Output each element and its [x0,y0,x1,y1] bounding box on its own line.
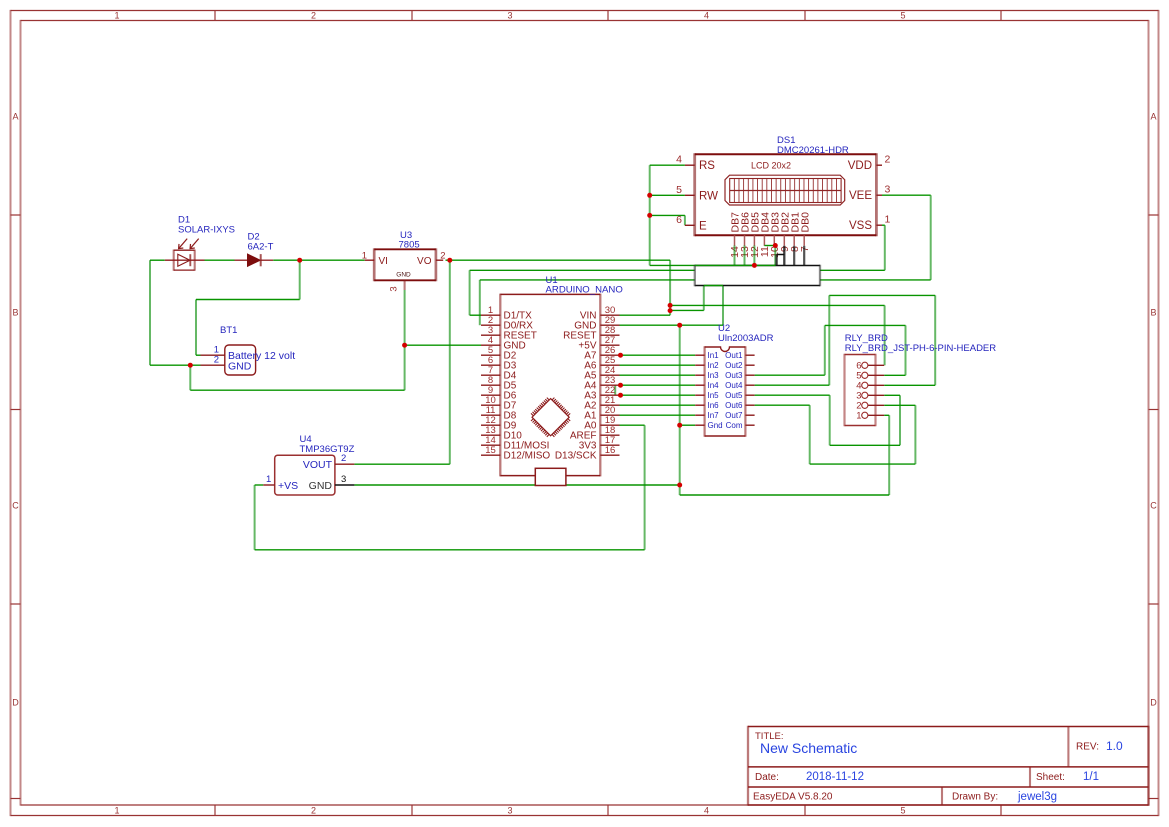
U1 pin 25 A6 [584,355,619,372]
svg-text:VOUT: VOUT [303,459,333,471]
wire junction D2 cathode down to BT1 pin1 [196,260,300,355]
mcu U1 box [500,294,600,477]
wire LCD RS-RW-E net vertical [650,165,685,265]
value 7805 [399,240,420,251]
photodiode D1 [174,250,195,271]
svg-text:D13/SCK: D13/SCK [555,451,597,462]
black wire LCD pin7 [803,246,805,266]
lcd DS1 display glyph [725,175,845,205]
DS1 pin 7 DB0 [799,212,812,252]
DS1 pin 1 VSS [849,214,891,233]
svg-text:Com: Com [726,421,743,430]
label RLY_BRD [845,333,888,344]
svg-text:16: 16 [605,445,616,456]
wire LCD pin12 drop [753,246,755,266]
DS1 pin 2 VDD [848,154,891,173]
U1 pin 1 D1/TX [481,305,532,322]
DS1 pin 4 RS [676,154,715,173]
svg-text:In1: In1 [708,351,720,360]
junction dot U3 gnd [402,343,407,348]
U2 pin Out5 [725,391,754,400]
U2 pin Out4 [725,381,754,390]
driver U2 box [705,346,746,436]
svg-text:D: D [1150,698,1157,708]
value Battery 12 volt [228,350,295,362]
RLY_BRD pin 6 [856,361,884,372]
wire Out3 to RLY pin5 [755,325,906,375]
svg-text:TMP36GT9Z: TMP36GT9Z [300,444,355,455]
photodiode D1 light arrows [179,239,199,249]
svg-text:1.0: 1.0 [1106,739,1123,753]
svg-text:New Schematic: New Schematic [760,740,857,756]
svg-text:RLY_BRD_JST-PH-6-PIN-HEADER: RLY_BRD_JST-PH-6-PIN-HEADER [845,343,996,354]
U1 pin 21 A2 [584,395,619,412]
U4 pin 2 VOUT [303,453,355,471]
svg-text:In6: In6 [708,401,720,410]
svg-text:2: 2 [311,806,316,816]
U2 pin In4 [695,381,719,390]
svg-text:EasyEDA V5.8.20: EasyEDA V5.8.20 [753,792,833,803]
U2 pin Com [726,421,755,430]
value TMP36GT9Z [300,444,355,455]
DS1 pin 5 RW [676,184,718,203]
svg-text:Out1: Out1 [725,351,743,360]
svg-text:D12/MISO: D12/MISO [504,451,551,462]
U1 chip diamond glyph [531,398,570,437]
svg-text:1: 1 [114,11,119,21]
svg-text:Uln2003ADR: Uln2003ADR [718,333,774,344]
value Uln2003ADR [718,333,774,344]
svg-text:Gnd: Gnd [708,421,723,430]
wire A7 to In1 [620,354,696,356]
svg-text:BT1: BT1 [220,325,237,336]
svg-text:GND: GND [309,480,333,492]
value DMC20261-HDR [777,145,849,156]
wire A4 to In4 [620,384,696,386]
svg-text:1: 1 [114,806,119,816]
junction dot D2-BT1 [297,258,302,263]
junction dot lcd12 [752,263,757,268]
RLY_BRD pin 2 [856,401,884,412]
U2 pin In5 [695,391,719,400]
svg-text:Out2: Out2 [725,361,743,370]
U1 pin 2 D0/RX [481,315,533,332]
U3 pin 2 VO [417,250,446,267]
U1 pin 7 D4 [481,365,517,382]
wire RLY pin1 stub to ground [884,414,889,416]
wire A6 to In2 [620,364,696,366]
frame row labels right [1150,112,1157,708]
frame row labels left [12,112,19,708]
lcd DS1 title text [751,161,791,171]
svg-text:E: E [699,220,707,232]
value 6A2-T [248,242,274,253]
U1 pin 13 D10 [481,425,522,442]
svg-text:In4: In4 [708,381,720,390]
title block Drawn By [952,791,1057,803]
svg-text:4: 4 [704,11,709,21]
wire A5 to In3 [620,374,696,376]
svg-text:3: 3 [389,286,400,291]
value ARDUINO_NANO [546,285,623,296]
U2 pin In7 [695,411,719,420]
BT1 pin 1 [201,344,225,355]
DS1 pin 9 DB2 [779,212,792,252]
svg-text:3: 3 [507,11,512,21]
svg-text:VDD: VDD [848,160,872,172]
wire overlay on header bottom edge [704,285,723,287]
svg-text:Sheet:: Sheet: [1036,772,1065,783]
DS1 pin 8 DB1 [789,212,802,252]
svg-text:In3: In3 [708,371,720,380]
svg-text:15: 15 [485,445,496,456]
label D1 [178,215,190,226]
wire Out5 to RLY pin3 [755,395,900,445]
U1 pin 18 AREF [570,425,620,442]
svg-text:A: A [1150,112,1156,122]
junction dot U4 gnd [677,483,682,488]
svg-text:SOLAR-IXYS: SOLAR-IXYS [178,225,235,236]
DS1 pin 12 DB5 [749,212,762,258]
U2 pin Out2 [725,361,754,370]
wire VO output to right [446,259,671,261]
U1 pin 15 D12/MISO [481,445,550,462]
U1 pin 26 A7 [584,345,619,362]
U1 pin 12 D9 [481,415,517,432]
DS1 pin 3 VEE [849,184,891,203]
RLY_BRD pin 4 [856,381,884,392]
RLY_BRD pin 3 [856,391,884,402]
svg-text:2: 2 [311,11,316,21]
svg-text:VI: VI [379,256,388,267]
U4 pin 3 GND [309,474,355,492]
wire Out6 to RLY pin2 [755,405,916,464]
junction dot supply a [668,303,673,308]
junction dot supply b [668,308,673,313]
wire A0 to U4 +VS [255,425,645,550]
U1 pin 14 D11/MOSI [481,435,549,452]
title block Date [755,771,864,783]
wire A1 to In7 [620,414,696,416]
svg-text:RS: RS [699,160,715,172]
wire main supply horizontal D1-D2-U3 [150,259,365,261]
junction dot A7 [618,353,623,358]
U1 pin 3 RESET [481,325,537,342]
DS1 pin 11 DB4 [759,212,772,257]
svg-text:4: 4 [704,806,709,816]
regulator U3 box [374,248,436,281]
U2 pin Out7 [725,411,754,420]
svg-text:1: 1 [362,250,367,261]
junction dot lcd10 [773,243,778,248]
svg-text:2: 2 [214,354,219,365]
svg-text:Out5: Out5 [725,391,743,400]
svg-text:Out6: Out6 [725,401,743,410]
svg-text:VSS: VSS [849,220,872,232]
svg-text:5: 5 [900,806,905,816]
svg-text:6A2-T: 6A2-T [248,242,274,253]
label U3 [400,230,412,241]
svg-text:3: 3 [885,184,891,196]
title block EasyEDA version [753,792,833,803]
U1 pin 6 D3 [481,355,517,372]
svg-text:B: B [12,308,18,318]
U1 pin 8 D5 [481,375,517,392]
wire VIN row to header [620,286,704,316]
U1 pin 27 +5V [578,335,619,352]
svg-text:In5: In5 [708,391,720,400]
DS1 pin 10 DB3 [769,212,782,258]
junction dot U2 gnd [677,423,682,428]
svg-text:2: 2 [440,250,445,261]
wire U4 GND to ground net [354,484,679,486]
wire U3 GND pin down [404,290,406,390]
BT1 pin 2 [201,354,225,365]
svg-text:C: C [12,501,19,511]
DS1 pin 6 E [676,214,707,233]
junction dot A4 [618,383,623,388]
svg-text:1: 1 [885,214,891,226]
svg-text:DMC20261-HDR: DMC20261-HDR [777,145,849,156]
wire VO corner down to VIN junction [669,260,671,315]
label DS1 [777,135,795,146]
U2 pin Out6 [725,401,754,410]
U2 pin In1 [695,351,719,360]
wire A3 to In5 [620,394,696,396]
svg-text:Out7: Out7 [725,411,743,420]
U3 pin 3 GND [389,272,412,292]
svg-text:B: B [1150,308,1156,318]
U2 pin Out3 [725,371,754,380]
diode D1 leads [165,259,205,261]
wire VOUT U4 up to VO junction [354,260,449,464]
title block REV [1076,739,1123,753]
U3 pin 1 VI [362,250,388,267]
frame column labels bottom [114,806,905,816]
RLY_BRD pin 1 [856,411,884,422]
wire overlay on header top edge [695,264,776,266]
wire A4-A3 tie [614,385,616,395]
title block Sheet [1036,771,1099,783]
U1 pin 19 A0 [584,415,619,432]
RLY_BRD pin 5 [856,371,884,382]
svg-text:LCD 20x2: LCD 20x2 [751,161,791,171]
wire LCD pin14 drop [734,246,736,266]
svg-text:4: 4 [676,154,682,166]
DS1 pin 13 DB6 [739,212,752,258]
svg-text:A: A [12,112,18,122]
label U4 [300,434,312,445]
svg-text:Drawn By:: Drawn By: [952,792,998,803]
svg-text:5: 5 [676,184,682,196]
svg-text:2018-11-12: 2018-11-12 [806,771,864,783]
DS1 pin 14 DB7 [729,212,742,258]
svg-text:2: 2 [885,154,891,166]
value RLY_BRD_JST-PH-6-PIN-HEADER [845,343,996,354]
battery BT1 box [225,345,256,375]
wire left vertical from D1 anode down to BT1 pin2 row [150,260,201,365]
wire U3 GND junction to Arduino GND pin4 [405,344,481,346]
U2 pin Gnd [695,421,722,430]
junction dot E [647,213,652,218]
svg-text:D: D [12,698,19,708]
U1 pin 20 A1 [584,405,619,422]
svg-text:VO: VO [417,256,432,267]
diode D2 [235,254,274,266]
title block [748,726,1149,806]
U1 pin 29 GND [574,315,619,332]
junction dot BT1 gnd [188,363,193,368]
wire ground net vertical U2 [680,325,890,495]
junction dot RW [647,193,652,198]
junction dot gnd29 [677,323,682,328]
svg-text:GND: GND [396,272,411,279]
U1 pin 17 3V3 [579,435,620,452]
wire GND29 row [620,286,724,326]
U1 pin 5 D2 [481,345,517,362]
junction dot A3 [618,393,623,398]
svg-text:7805: 7805 [399,240,420,251]
junction dot VO-VOUT [447,258,452,263]
wire LCD pin11 jog [764,245,775,247]
U1 pin 24 A5 [584,365,619,382]
BT1 GND text [228,360,252,372]
U1 pin 22 A3 [584,385,619,402]
svg-text:5: 5 [900,11,905,21]
svg-text:Date:: Date: [755,772,779,783]
wire BT1 pin2 junction down to GND rail [190,365,404,390]
label U1 [546,275,558,286]
U4 pin 1 +VS [263,474,298,492]
svg-text:1: 1 [856,411,861,422]
U1 pin 11 D8 [481,405,517,422]
svg-text:+VS: +VS [278,480,298,492]
U2 pin Out1 [725,351,754,360]
U1 pin 4 GND [481,335,526,352]
title block New Schematic [760,740,857,756]
value SOLAR-IXYS [178,225,235,236]
wire A2 to In6 [620,404,696,406]
U1 pin 23 A4 [584,375,619,392]
svg-text:C: C [1150,501,1157,511]
U1 usb connector rect [535,468,566,485]
wire supply net to LCD data pins [650,264,776,266]
header RLY_BRD box [845,354,876,426]
svg-text:In7: In7 [708,411,720,420]
U2 pin In2 [695,361,719,370]
svg-text:3: 3 [507,806,512,816]
svg-text:Out3: Out3 [725,371,743,380]
svg-text:3: 3 [341,474,346,485]
svg-text:VEE: VEE [849,190,872,202]
U1 pin 16 D13/SCK [555,445,620,462]
U2 pin In3 [695,371,719,380]
connector header white box [695,265,820,287]
svg-text:1: 1 [266,474,271,485]
svg-text:1/1: 1/1 [1083,771,1099,783]
U1 pin 10 D7 [481,395,517,412]
svg-text:RW: RW [699,190,718,202]
wire Out4 to RLY pin4 [755,295,936,385]
black wire LCD pin9 [777,246,785,266]
lcd DS1 box [695,153,877,236]
svg-text:jewel3g: jewel3g [1017,791,1057,803]
svg-text:REV:: REV: [1076,742,1099,753]
svg-text:6: 6 [676,214,682,226]
svg-text:GND: GND [228,360,252,372]
U1 pin 30 VIN [580,305,620,322]
wire LCD pin10 drop [774,246,776,266]
label D2 [248,232,260,243]
wire D1/TX pin1 to LCD VSS [470,225,885,315]
label U2 [718,323,730,334]
label BT1 [220,325,237,336]
wire LCD pin13 drop [744,246,746,266]
U1 pin 28 RESET [563,325,619,342]
wire D0/RX pin2 to LCD VEE [480,195,931,325]
U2 pin In6 [695,401,719,410]
svg-text:Out4: Out4 [725,381,743,390]
frame column labels top [114,11,905,21]
svg-text:ARDUINO_NANO: ARDUINO_NANO [546,285,623,296]
svg-text:DB0: DB0 [799,212,811,233]
sensor U4 box [275,455,335,495]
svg-text:In2: In2 [708,361,720,370]
wire junction to RLY pin6 [670,305,885,365]
title block TITLE [755,731,784,742]
U1 pin 9 D6 [481,385,517,402]
black wire LCD pin8 [793,246,795,266]
